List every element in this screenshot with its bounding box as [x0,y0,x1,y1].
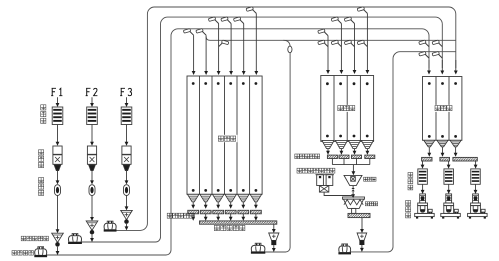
connector oval on loop 4 riser [288,46,292,53]
label storage silo [217,135,238,142]
diverter flag to batching bin 1 (line 3) [318,29,328,36]
label F1 [51,88,56,95]
wire conveying loop 1 (blower F3-line to top line 1 to packing bin 3) [115,7,455,230]
pipe to magnet F3 [126,171,128,182]
diverter flag to storage bin 1 (line 3) [183,29,193,36]
mixer [343,197,365,199]
diverter flags line 5 to packing bins 1-2 [419,51,429,58]
pipe to dosing scale F3 [126,125,128,143]
batching scale [344,175,362,185]
magnetic separator F1 [55,185,61,196]
check sieve packing 2 [444,169,454,184]
label screw feeders (batching) [295,154,320,159]
mixer discharge conveyor [348,213,370,217]
drop pipe batching bin 2 [340,24,342,71]
drop pipe batching bin 3 [354,24,356,71]
drop pipe storage bin 4 [230,24,232,72]
rotary airlock feeder F1 [52,233,64,242]
label check sieve (vertical) [41,105,46,124]
drop pipe packing bin 2 [441,60,443,71]
check sieve packing 1 [418,169,428,184]
label batching silo [337,105,356,112]
scale discharge to mixer [352,191,354,195]
diverter flag to batching bin 2 (line 2) [331,17,341,24]
diverter flag to batching bin 3 (line 2) [344,17,354,24]
discharge into conveying line F2 [91,235,93,239]
check sieve F2 [87,107,98,125]
label screw conveyor [214,225,245,230]
label mixer [365,202,377,206]
batching bin hoppers [322,140,334,148]
discharge into loop 4 line [273,245,275,249]
scale discharge hopper F3 [123,165,130,171]
batching silo (4 bins) [321,76,374,142]
screw feeders under storage bins [188,210,199,214]
feeder collection manifold [331,159,333,165]
diverter flag to storage bin 5 (line 2) [233,17,243,24]
feeder to check sieve arrows (packing) [422,161,424,165]
storage silo (6 bins) [187,76,262,194]
drop pipe storage bin 6 [255,13,257,71]
wire conveying loop 5 (mixer discharge to top line 5 to packing bins) [350,52,456,252]
screw feeders under batching bins [327,155,337,158]
check sieve F3 [121,107,132,125]
packing machine 1 [422,184,424,190]
drop pipe storage bin 3 [218,24,220,72]
scale discharge hopper F1 [54,165,61,171]
label F3 [120,88,125,95]
label dosing scale (vertical) [39,150,44,168]
drop pipe batching bin 1 [327,36,329,71]
packing machine 2 [448,184,450,190]
pipe to magnet F2 [91,171,93,182]
drop pipe storage bin 2 [205,35,207,71]
label Roots blower [12,251,33,256]
dosing scale F2 [87,146,96,154]
dosing scale F3 [122,146,131,154]
label magnetic separator (vertical) [39,178,44,196]
wire top line 4 (recycle distribution line) [206,37,456,41]
blower on loop 1 [104,223,116,229]
drop pipe packing bin 1 [428,60,430,71]
scale outlet valve [351,188,354,190]
wire conveying loop 4 riser (screw conveyor discharge to line 4) [265,47,290,252]
packing machine 3 [475,184,477,190]
drop pipe storage bin 5 [243,24,245,72]
storage bin discharge hoppers [188,194,199,202]
drop pipe storage bin 1 [193,35,195,71]
mixer discharge to airlock [361,218,363,230]
diverter flag to storage bin 2 (line 3) [196,29,206,36]
rotary airlock feeder F2 [86,221,98,230]
check sieve packing 3 [471,169,481,184]
packing bin hoppers [424,140,435,147]
check sieve F1 [52,107,63,125]
diverter flag to batching bin 4 (line 1) [357,7,367,14]
wire conveying loop 3 (Roots blower line to top line 3 to packing bin 1) [46,29,429,255]
screw conveyor under storage silo [200,221,277,224]
label check sieve (packing, vertical) [408,173,413,190]
pipe to dosing scale F2 [91,125,93,143]
blower on loop 4 [251,245,265,251]
label F2 [86,88,91,95]
label trace element adder [297,168,335,173]
label packing machine (vertical) [406,201,411,218]
label screw feeders (storage) [167,213,194,218]
diverter flag line 4 to storage bin 3 [219,40,229,47]
airlock on loop 4 [269,233,279,240]
packing screw feeders [422,157,432,161]
discharge into loop 5 line [361,245,363,249]
trace element adding machine [317,175,324,186]
dosing scale F1 [53,146,62,154]
Roots blower on loop 3 [35,249,47,255]
diverter flags line 4 to batching bins [318,40,328,47]
label packing silo [434,105,453,112]
pipe to airlock F1 [57,196,59,230]
blower on loop 2 [69,236,82,242]
packing silo (3 bins) [423,77,462,141]
wire conveying loop 2 (blower F1-line to top line 2 to packing bin 2) [81,17,442,242]
diverter flag to storage bin 3 (line 2) [208,17,218,24]
diverter flags line 4 to packing bins 1-2 [419,40,429,47]
magnetic separator F3 [124,185,130,196]
diverter flag to storage bin 6 (line 1) [246,7,256,14]
pipe to airlock F3 [126,196,128,208]
adder discharge line to mixer inlet [324,192,353,195]
magnetic separator F2 [89,185,95,196]
drop pipe batching bin 4 [366,13,368,70]
label positive-pressure airlock [21,236,48,241]
screw conveyor discharge to airlock [273,224,275,230]
discharge into conveying line F1 [57,247,59,252]
pipe to magnet F1 [57,171,59,182]
feed pipe into check sieve F1 [57,97,59,104]
feed pipe into check sieve F2 [91,97,93,104]
pipe to dosing scale F1 [57,125,59,143]
feed pipe into check sieve F3 [126,97,128,104]
scale discharge hopper F2 [89,165,96,171]
label batching scale [364,177,376,181]
rotary airlock feeder F3 [121,210,133,219]
discharge into conveying line F3 [126,224,128,227]
diverter flag to storage bin 4 (line 2) [221,17,231,24]
blower on loop 5 [339,246,351,252]
pipe to airlock F2 [91,196,93,218]
airlock on loop 5 [357,233,367,240]
drop pipe packing bin 3 [455,60,457,71]
